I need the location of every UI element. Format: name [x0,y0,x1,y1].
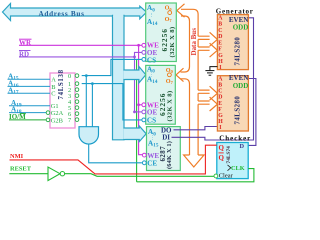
svg-text:EVEN: EVEN [229,74,248,82]
decoder input A17 [8,92,51,94]
svg-text:E: E [218,101,222,107]
wire AND gate input 1 [85,76,87,127]
svg-text:CS: CS [147,117,156,125]
wire RESET with inverter [9,173,48,175]
svg-text:62256: 62256 [160,28,169,51]
svg-text:74LS280: 74LS280 [234,96,241,125]
svg-text:DI: DI [162,134,170,142]
wire D input from checker EVEN [248,79,256,146]
address bus vertical drop [113,15,125,139]
svg-text:74LS74: 74LS74 [226,146,232,164]
flip-flop 74LS74 box [217,143,248,179]
decoder input A16 [8,85,51,87]
svg-text:C: C [218,28,222,34]
wire CLK net bottom [137,169,254,182]
address bus branch to RAM2 [124,67,146,84]
decoder outputs 0-7 with bubbles [68,73,72,124]
svg-text:G: G [218,53,223,59]
data bus branch to generator (lower) [198,39,217,90]
wire decoder output 1 to RAM2 CS [82,84,142,120]
decoder pin G2A bubble [46,111,50,115]
svg-text:H: H [218,119,223,125]
svg-text:G2A: G2A [51,110,64,117]
wire CLK net vertical (behind bus arrows) [136,60,138,182]
data bus branch to checker (lower) [198,93,217,155]
svg-text:F: F [218,107,222,113]
svg-text:74LS280: 74LS280 [234,37,241,66]
svg-text:WR: WR [19,39,32,47]
wire AND gate output to 6287 CE [89,144,142,163]
RAM2 62256 box [146,65,176,124]
wire WE pin RAM2 stub [139,104,142,106]
generator pins A-I [218,15,223,71]
wire OE pin RAM2 stub [135,111,142,113]
svg-text:74LS138: 74LS138 [58,69,65,99]
data bus branch to checker (upper) [198,86,217,100]
decoder pin G2B bubble [46,118,50,122]
svg-text:CS: CS [147,56,156,64]
svg-text:D: D [218,95,222,101]
data bus bottom arrowhead [184,155,204,167]
wire RD horizontal [19,52,142,57]
svg-text:Data Bus: Data Bus [190,28,198,56]
data bus arrow to RAM1 outputs [177,4,185,17]
svg-text:ODD: ODD [233,82,249,90]
address bus main arrow [3,4,147,21]
RAM1 pin CS bubble [142,58,146,62]
svg-text:OE: OE [147,109,158,117]
svg-text:NMI: NMI [10,153,24,160]
RAM1 pin WE bubble [142,43,146,47]
wire DO to checker input I [174,127,218,130]
checker pins A-I [218,76,223,131]
wire decoder output 0 to RAM1 CS [82,59,142,75]
svg-text:CE: CE [147,160,157,168]
svg-text:G2B: G2B [51,117,63,124]
svg-text:Q: Q [219,144,225,152]
address bus branch to parity RAM 6287 [124,126,146,142]
data bus hollow shaft with arrows [176,4,217,167]
svg-text:IO/M: IO/M [9,113,26,121]
RAM1 pin OE bubble [142,51,146,55]
svg-text:C: C [51,91,55,98]
svg-text:G: G [218,113,223,119]
wire WR horizontal [19,44,142,46]
svg-text:(64K X 1): (64K X 1) [166,141,173,169]
svg-text:Clear: Clear [219,173,234,180]
svg-text:WE: WE [147,152,159,160]
RAM2 pin CS bubble [142,118,146,122]
decoder input A18 [9,112,46,114]
data bus branch to generator (upper) [198,32,217,46]
parity RAM 6287 box [147,127,181,171]
svg-text:H: H [218,59,223,65]
svg-text:A: A [51,77,56,84]
svg-text:RD: RD [19,51,29,59]
svg-text:D: D [240,143,245,150]
wire WR vertical (behind bus arrows) [139,45,143,154]
svg-text:CLK: CLK [231,165,245,172]
wire AND gate input 2 [91,84,93,127]
decoder input A19 [9,105,50,107]
svg-text:Checker: Checker [219,134,251,142]
data bus arrow to RAM2 outputs [176,68,184,81]
RAM1 62256 box [146,3,177,62]
svg-text:(32K X 8): (32K X 8) [169,26,176,57]
wire NMI to Q [10,145,217,174]
decoder U1 74LS138 box [50,73,75,128]
svg-text:D: D [218,34,222,40]
svg-text:C: C [218,89,222,95]
svg-text:F: F [218,47,222,53]
RAM2 pin OE bubble [142,110,146,114]
wire DI from generator EVEN [172,18,254,140]
RAM2 pin WE bubble [142,103,146,107]
FF pin CLK with edge triangle [228,165,231,171]
decoder input A15 [8,78,51,80]
svg-text:B: B [218,83,222,89]
wire RD vertical (behind bus arrows) [134,57,136,112]
ground for generator pin I [210,67,218,71]
6287 pin WE bubble [142,153,146,157]
svg-text:7: 7 [68,117,71,124]
svg-text:(32K X 8): (32K X 8) [166,90,173,121]
generator 74LS280 box [217,15,248,70]
FF pin Clear bubble [214,174,218,178]
6287 pin CE bubble [142,161,146,165]
wire RESET to Clear [65,174,214,177]
AND gate U5 [79,127,99,144]
svg-text:ODD: ODD [233,23,249,31]
decoder input IO/M [9,119,46,121]
checker 74LS280 box [217,76,248,131]
svg-text:Q: Q [219,154,225,162]
inverter buffer on RESET [48,167,60,181]
svg-text:Address Bus: Address Bus [39,10,85,18]
svg-text:0: 0 [68,73,71,80]
svg-text:B: B [218,22,222,28]
svg-text:E: E [218,40,222,46]
svg-text:RESET: RESET [10,166,32,173]
